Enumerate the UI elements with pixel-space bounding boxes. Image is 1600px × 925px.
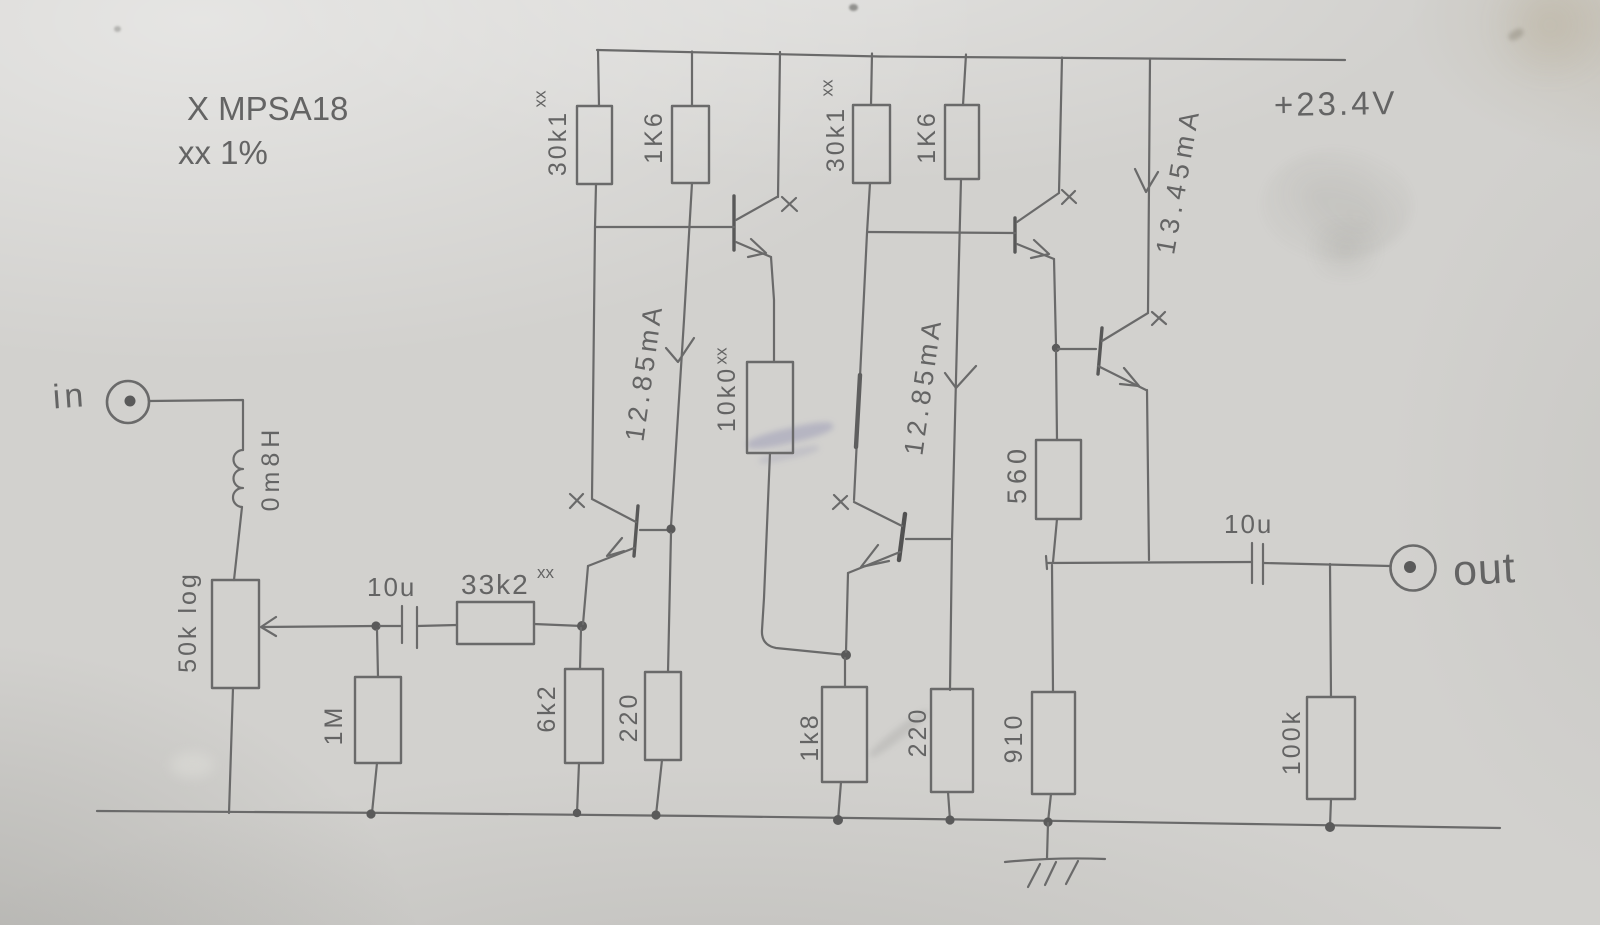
transistor T4 MPSA18	[1098, 313, 1148, 390]
input connector J1	[107, 381, 149, 423]
capacitor C2 10u	[1252, 543, 1263, 584]
wire: R6 to Q2 emitter node	[534, 624, 582, 626]
wire: Q2 emitter to node	[583, 566, 588, 624]
pot wiper arrow	[261, 617, 376, 636]
resistor R2 1K6	[672, 106, 709, 183]
wire: output line to C2	[1047, 562, 1252, 563]
wire: T1 base to R1 node	[595, 226, 734, 228]
wire: Q2 base node down to R8	[668, 533, 671, 672]
wire: rail to R4 top	[963, 55, 966, 106]
svg-text:xx: xx	[537, 563, 555, 582]
ground rail bottom	[97, 811, 1500, 828]
resistor R10 1k8	[822, 687, 867, 782]
junction dot R14/rail	[1325, 822, 1335, 832]
wire: output line down to R14	[1330, 564, 1331, 697]
wire: R4 bottom through T3 base to R11	[950, 179, 961, 690]
wire: +23.4V top supply rail	[597, 50, 1345, 60]
svg-text:xx 1%: xx 1%	[178, 134, 268, 171]
svg-text:1K6: 1K6	[640, 110, 668, 163]
wire: R14 to ground rail	[1330, 799, 1331, 826]
resistor R4 1K6	[945, 105, 979, 179]
wire: inductor to potentiometer	[234, 507, 242, 580]
junction node T3 emitter / R10	[841, 650, 851, 660]
wire: T2 base to R3 node	[867, 232, 1015, 233]
current arrow first stage	[666, 338, 694, 362]
wire: rail to T1 collector	[778, 52, 780, 197]
svg-text:out: out	[1452, 544, 1517, 595]
wire: input to inductor	[149, 400, 243, 450]
wire: node to R10	[844, 658, 846, 687]
wire: rail to T4 collector 13.45mA	[1148, 59, 1150, 313]
capacitor C1 10u	[402, 606, 417, 648]
current arrow second stage	[945, 366, 976, 388]
potentiometer VR1 50k log	[212, 580, 259, 688]
svg-text:X MPSA18: X MPSA18	[187, 90, 348, 127]
svg-text:1M: 1M	[320, 705, 348, 746]
wire: T1 emitter down to R5	[771, 257, 774, 362]
wire: rail to R2 top	[691, 52, 693, 107]
wire: node down to R7	[580, 628, 581, 669]
wire overdraw thick segment	[856, 375, 860, 447]
junction dot ground stub	[1043, 817, 1052, 826]
svg-text:1K6: 1K6	[913, 110, 941, 163]
svg-text:560: 560	[1002, 444, 1032, 504]
transistor T2 MPSA18	[1015, 193, 1059, 259]
wire: rail to T2 collector	[1059, 58, 1062, 193]
resistor R12 910	[1032, 692, 1075, 794]
transistor T1 MPSA18	[734, 196, 777, 257]
junction dot R10/rail	[833, 815, 843, 825]
output connector J2	[1391, 546, 1436, 591]
wire: T4 base to node	[1058, 348, 1096, 350]
svg-text:30k1: 30k1	[544, 110, 572, 176]
wire: R2 bottom to Q2 base node	[671, 183, 692, 526]
svg-text:0m8H: 0m8H	[257, 425, 285, 512]
current arrow 13.45mA	[1135, 169, 1158, 192]
svg-text:100k: 100k	[1278, 709, 1306, 775]
junction dot R9/rail	[366, 809, 375, 818]
label R6 33k2 xx	[461, 563, 555, 600]
ground stub	[1047, 823, 1048, 858]
svg-text:10u: 10u	[367, 572, 416, 602]
wire: T2 emitter down to node	[1054, 259, 1056, 345]
resistor R6 33k2	[457, 602, 534, 644]
junction node input coupling	[371, 621, 380, 630]
resistor R8 220	[645, 672, 681, 760]
wire: Q2 base to node	[640, 529, 668, 531]
x mark T1	[782, 197, 797, 211]
wire: node to R13 top	[1056, 351, 1057, 440]
svg-text:10k0: 10k0	[713, 366, 741, 432]
svg-text:13.45mA: 13.45mA	[1150, 103, 1206, 256]
wire: node to C1	[380, 625, 402, 627]
x mark T3	[833, 495, 848, 509]
label R3 30k1 xx	[818, 79, 851, 172]
wire: rail to R1 top	[598, 50, 599, 106]
resistor R7 6k2	[565, 669, 603, 763]
wire: R9 to ground rail	[372, 763, 377, 813]
wire: R8 to ground rail	[656, 760, 662, 815]
x mark Q2	[570, 494, 584, 508]
wire: R13 bottom to output node	[1053, 519, 1057, 562]
wire: output node down to R12	[1052, 565, 1053, 692]
wire: R1 bottom through T1 base node to Q2 collector	[592, 184, 596, 498]
junction dot R7/rail	[573, 809, 581, 817]
svg-text:xx: xx	[531, 90, 550, 108]
resistor R14 100k	[1307, 697, 1355, 799]
inductor L1	[233, 450, 243, 507]
wire: T3 emitter down to node	[846, 573, 848, 652]
x mark T2	[1062, 190, 1076, 204]
junction dot R8/rail	[651, 810, 660, 819]
junction tick output node	[1046, 556, 1047, 569]
resistor R3 30k1	[853, 105, 890, 183]
ground symbol	[1005, 858, 1105, 887]
wire: R11 to ground rail	[948, 792, 950, 820]
svg-text:xx: xx	[818, 79, 837, 97]
svg-text:in: in	[51, 376, 88, 416]
wire: C2 to output connector	[1264, 563, 1390, 566]
svg-text:910: 910	[1000, 713, 1028, 764]
label R5 10k0 xx	[712, 347, 742, 432]
svg-text:220: 220	[904, 707, 932, 758]
label R1 30k1 xx	[531, 90, 573, 176]
svg-text:50k log: 50k log	[174, 571, 202, 673]
svg-text:+23.4V: +23.4V	[1274, 84, 1398, 123]
wire: T4 emitter down to output line	[1147, 390, 1149, 560]
svg-text:220: 220	[615, 692, 643, 743]
wire: R5 bottom down then right to T3 emitter node	[762, 453, 846, 655]
resistor R13 560	[1036, 440, 1081, 519]
wire: 1M node down	[377, 630, 378, 677]
wire: rail to R3 top	[871, 54, 872, 106]
resistor R1 30k1	[577, 106, 612, 184]
svg-text:xx: xx	[712, 347, 731, 365]
junction node Q2 base	[666, 524, 675, 533]
transistor T3 MPSA18	[848, 502, 905, 573]
svg-text:12.85mA: 12.85mA	[619, 301, 668, 443]
wire: R3 bottom through T2 base node to T3 collector	[854, 183, 870, 500]
junction dot R11/rail	[945, 815, 954, 824]
svg-text:1k8: 1k8	[796, 712, 824, 761]
junction node Q2 emitter / R7	[577, 621, 587, 631]
svg-text:6k2: 6k2	[533, 683, 561, 732]
wire: T3 base to R4 wire	[906, 538, 950, 540]
svg-text:10u: 10u	[1224, 509, 1273, 539]
svg-text:12.85mA: 12.85mA	[898, 315, 947, 457]
wire: R12 to ground rail	[1048, 794, 1051, 822]
wire: pot bottom to ground rail	[229, 688, 233, 813]
wire: C1 to R6	[417, 625, 457, 626]
x mark T4	[1152, 312, 1166, 325]
svg-text:30k1: 30k1	[822, 106, 850, 172]
svg-text:33k2: 33k2	[461, 569, 530, 600]
resistor R9 1M	[355, 677, 401, 763]
resistor R11 220	[931, 689, 973, 792]
transistor Q2 MPSA18	[588, 499, 638, 566]
wire: R7 to ground rail	[577, 763, 579, 813]
resistor R5 10k0	[747, 362, 793, 453]
junction node T4 base / 560	[1052, 344, 1060, 352]
wire: R10 to ground rail	[838, 782, 841, 820]
